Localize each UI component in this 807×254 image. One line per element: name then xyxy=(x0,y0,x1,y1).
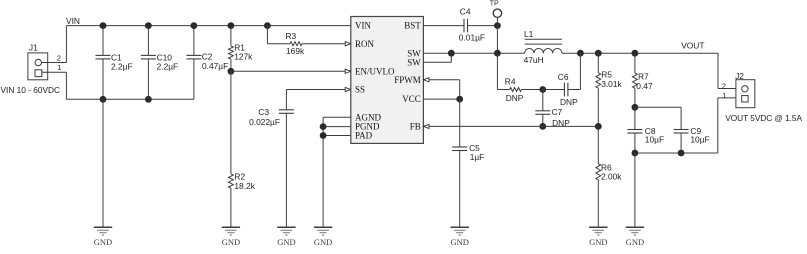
node FB/R5/R6 xyxy=(595,123,602,130)
svg-text:3.01k: 3.01k xyxy=(601,79,622,89)
svg-text:PAD: PAD xyxy=(355,131,373,141)
svg-text:0.01µF: 0.01µF xyxy=(459,32,485,42)
wire R4 drop xyxy=(496,53,498,89)
resistor R6 xyxy=(596,126,622,227)
ground GND3 xyxy=(277,227,295,247)
node PGND junction xyxy=(320,123,327,130)
svg-text:C3: C3 xyxy=(258,107,269,117)
wire VOUT corner xyxy=(717,53,719,88)
svg-text:C4: C4 xyxy=(460,6,471,16)
svg-text:GND: GND xyxy=(450,237,468,247)
wire J1 pin1 drop xyxy=(65,72,67,99)
resistor R5 xyxy=(596,53,623,126)
svg-text:GND: GND xyxy=(94,237,112,247)
svg-text:VOUT: VOUT xyxy=(681,41,704,51)
wire R7 to C9 xyxy=(635,107,681,129)
svg-text:1µF: 1µF xyxy=(470,152,485,162)
connector J2 xyxy=(735,71,755,108)
svg-text:FB: FB xyxy=(410,122,421,132)
ground GND1 xyxy=(94,227,112,247)
capacitor C7 xyxy=(535,90,570,129)
wire J2 pin1 stub xyxy=(718,97,736,99)
resistor R1 xyxy=(228,26,253,72)
svg-text:2: 2 xyxy=(722,82,726,91)
wire PGND stub xyxy=(323,126,351,128)
svg-text:VIN 10 - 60VDC: VIN 10 - 60VDC xyxy=(1,85,60,95)
resistor R3 xyxy=(267,31,350,56)
inductor L1 xyxy=(524,29,562,65)
capacitor C1 xyxy=(96,26,133,100)
svg-text:VOUT 5VDC @ 1.5A: VOUT 5VDC @ 1.5A xyxy=(725,113,802,123)
svg-text:RON: RON xyxy=(355,39,375,49)
node C7 bottom xyxy=(539,123,546,130)
svg-text:C7: C7 xyxy=(552,107,563,117)
svg-text:DNP: DNP xyxy=(560,97,578,107)
wire R3 drop xyxy=(266,26,268,44)
svg-text:R2: R2 xyxy=(234,171,245,181)
capacitor C2 xyxy=(186,26,228,100)
capacitor C4 xyxy=(459,6,498,42)
wire VIN rail xyxy=(66,25,350,27)
node R7 bottom xyxy=(632,104,639,111)
node C9 bottom xyxy=(678,150,685,157)
node C1 top xyxy=(100,22,107,29)
svg-text:C6: C6 xyxy=(558,72,569,82)
node VCC/C5 xyxy=(456,96,463,103)
svg-text:GND: GND xyxy=(222,237,240,247)
wire AGND stub xyxy=(323,116,351,118)
node R1 top xyxy=(228,22,235,29)
svg-text:GND: GND xyxy=(626,237,644,247)
node R4/C6/C7 xyxy=(539,86,546,93)
node R1 bottom / EN xyxy=(228,68,235,75)
node R3 top xyxy=(264,22,271,29)
wire SW rail right / VOUT rail xyxy=(562,52,718,54)
capacitor C9 xyxy=(674,126,710,153)
svg-text:2.00k: 2.00k xyxy=(601,172,622,182)
wire SW rail left xyxy=(423,52,524,54)
ground GND2 xyxy=(222,227,240,247)
wire EN/UVLO xyxy=(231,69,351,73)
wire output cap rail xyxy=(635,152,718,154)
svg-text:C2: C2 xyxy=(202,52,213,62)
svg-text:2.2µF: 2.2µF xyxy=(157,62,179,72)
ground GND5 xyxy=(450,227,468,247)
label J2 pin 1 xyxy=(722,91,726,100)
node BST/TP junction xyxy=(494,22,501,29)
svg-text:J2: J2 xyxy=(735,71,744,81)
wire C6 drop xyxy=(568,53,580,89)
svg-text:J1: J1 xyxy=(29,42,38,52)
svg-text:DNP: DNP xyxy=(506,93,524,103)
svg-text:SS: SS xyxy=(355,85,365,95)
wire J2 pin2 stub xyxy=(718,88,736,90)
node C2 top xyxy=(191,22,198,29)
svg-text:10µF: 10µF xyxy=(690,134,709,144)
svg-text:FPWM: FPWM xyxy=(394,75,421,85)
wire C8 ground stem xyxy=(634,153,636,227)
label J1 pin 1 xyxy=(57,63,61,72)
node SW/TP xyxy=(494,50,501,57)
op-amp U1 regulator IC box with pin labels xyxy=(351,17,424,144)
svg-text:R3: R3 xyxy=(286,31,297,41)
capacitor C6 xyxy=(543,72,578,107)
svg-text:18.2k: 18.2k xyxy=(234,181,255,191)
label J1 pin 2 xyxy=(57,53,61,62)
node R5 top xyxy=(595,50,602,57)
net label VIN xyxy=(66,16,80,26)
connector J1 xyxy=(28,42,48,79)
svg-text:GND: GND xyxy=(277,237,295,247)
svg-text:1: 1 xyxy=(722,91,726,100)
test point TP xyxy=(490,1,502,18)
wire C1 to ground xyxy=(102,99,104,227)
wire FPWM xyxy=(423,78,459,99)
wire AGND chain drop xyxy=(322,117,324,227)
svg-text:2: 2 xyxy=(57,53,61,62)
svg-text:TP: TP xyxy=(490,1,499,8)
svg-text:VIN: VIN xyxy=(355,21,371,31)
node C10 bottom xyxy=(145,96,152,103)
capacitor C8 xyxy=(627,107,664,153)
wire GND bottom rail xyxy=(66,98,193,100)
wire FB xyxy=(423,124,598,128)
node SW join xyxy=(448,50,455,57)
resistor R4 xyxy=(497,77,542,103)
resistor R2 xyxy=(228,71,255,227)
capacitor C3 xyxy=(249,107,294,227)
svg-text:SW: SW xyxy=(407,57,421,67)
svg-text:EN/UVLO: EN/UVLO xyxy=(355,66,395,76)
svg-text:10µF: 10µF xyxy=(645,134,664,144)
capacitor C10 xyxy=(141,26,178,100)
svg-text:R4: R4 xyxy=(505,77,516,87)
net label VOUT xyxy=(681,41,704,51)
wire TP drop xyxy=(496,17,498,53)
label VOUT 5VDC @ 1.5A xyxy=(725,113,802,123)
wire J1 pin1 stub xyxy=(42,71,67,73)
svg-text:GND: GND xyxy=(589,237,607,247)
wire SW2 stub xyxy=(423,53,451,62)
capacitor C5 xyxy=(452,99,484,227)
svg-text:1: 1 xyxy=(57,63,61,72)
wire VIN riser xyxy=(65,26,67,63)
wire J1 pin2 to VIN riser xyxy=(42,62,67,64)
svg-text:GND: GND xyxy=(314,237,332,247)
ground GND4 xyxy=(314,227,332,247)
node C10 top xyxy=(145,22,152,29)
svg-text:169k: 169k xyxy=(286,46,305,56)
wire PAD stub xyxy=(323,135,351,137)
svg-text:0.47µF: 0.47µF xyxy=(202,61,228,71)
ground GND6 xyxy=(589,227,607,247)
svg-text:127k: 127k xyxy=(234,51,253,61)
node C6 top xyxy=(577,50,584,57)
wire BST xyxy=(423,25,464,27)
resistor R7 xyxy=(633,53,653,107)
node C1 bottom xyxy=(100,96,107,103)
node PAD junction xyxy=(320,132,327,139)
ground GND7 xyxy=(626,227,644,247)
svg-text:47uH: 47uH xyxy=(524,55,544,65)
wire J2 pin1 drop xyxy=(717,98,719,153)
svg-text:0.022µF: 0.022µF xyxy=(249,117,280,127)
label VIN 10 - 60VDC xyxy=(1,85,60,95)
svg-text:L1: L1 xyxy=(524,29,534,39)
svg-text:BST: BST xyxy=(404,21,421,31)
svg-text:VIN: VIN xyxy=(66,16,80,26)
svg-text:0.47: 0.47 xyxy=(636,81,653,91)
wire VCC xyxy=(423,98,459,100)
node C8 bottom xyxy=(632,150,639,157)
svg-text:VCC: VCC xyxy=(402,94,421,104)
svg-text:2.2µF: 2.2µF xyxy=(111,62,133,72)
node R7 top xyxy=(632,50,639,57)
label J2 pin 2 xyxy=(722,82,726,91)
wire SS xyxy=(286,87,350,109)
